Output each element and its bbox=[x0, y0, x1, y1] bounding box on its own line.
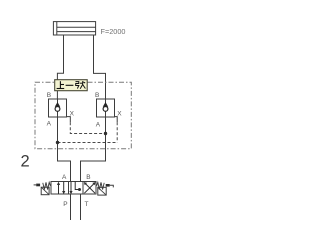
svg-text:X: X bbox=[117, 111, 122, 118]
svg-text:A: A bbox=[96, 122, 101, 129]
pilot dashed cross line bbox=[58, 142, 118, 144]
svg-text:P: P bbox=[63, 201, 67, 208]
wire DCV port P down bbox=[70, 194, 72, 220]
check valve V2 poppet seat bbox=[103, 102, 108, 107]
pilot line X of V1 bbox=[67, 117, 71, 123]
check valve V1 body bbox=[49, 99, 67, 117]
piston bbox=[56, 22, 58, 35]
svg-text:T: T bbox=[85, 201, 89, 208]
wire cylinder left port down bbox=[57, 35, 63, 99]
check valve V1 poppet seat bbox=[55, 102, 60, 107]
solenoid right box bbox=[98, 187, 106, 195]
svg-text:B: B bbox=[86, 174, 90, 181]
check valve V2 body bbox=[97, 99, 115, 117]
spring left bbox=[43, 182, 51, 189]
check valve V2 ball bbox=[103, 107, 108, 112]
piston rod upper line bbox=[57, 26, 96, 28]
svg-text:2: 2 bbox=[21, 153, 30, 171]
nav button glyph 张 bbox=[76, 81, 86, 89]
cylinder body bbox=[53, 22, 95, 35]
svg-text:F=2000: F=2000 bbox=[101, 27, 126, 36]
DCV divider 2 bbox=[82, 182, 84, 195]
dashed enclosure box bbox=[35, 82, 131, 149]
solenoid left box bbox=[41, 187, 49, 195]
svg-text:A: A bbox=[62, 174, 67, 181]
wire V1 down to DCV port A bbox=[58, 117, 71, 182]
nav button glyph 一 bbox=[66, 84, 74, 86]
nav button background bbox=[55, 80, 87, 91]
solenoid left terminal bar bbox=[36, 184, 40, 187]
solenoid right terminal bar bbox=[106, 184, 110, 187]
pilot dashed drop V2 bbox=[116, 122, 118, 142]
wire V2 down to DCV port B bbox=[81, 117, 106, 182]
junction dot left bbox=[56, 141, 59, 144]
solenoid left lead wire bbox=[34, 184, 37, 186]
svg-text:B: B bbox=[47, 92, 51, 99]
DCV left position arrows bbox=[57, 182, 65, 195]
DCV right position crossed arrows bbox=[84, 182, 96, 193]
piston rod lower line bbox=[57, 31, 96, 33]
junction dot right bbox=[104, 132, 107, 135]
DCV divider 1 bbox=[68, 182, 70, 195]
solenoid left diagonal bbox=[41, 187, 49, 195]
wire DCV port T down bbox=[80, 194, 82, 220]
check valve V1 ball bbox=[55, 107, 60, 112]
spring right bbox=[97, 182, 105, 189]
solenoid right diagonal bbox=[98, 187, 106, 195]
pilot line X of V2 bbox=[115, 117, 118, 123]
wire through V1 bbox=[57, 99, 59, 117]
svg-text:B: B bbox=[95, 92, 99, 99]
DCV centre position bbox=[69, 182, 81, 195]
wire through V2 bbox=[105, 99, 107, 117]
nav button glyph 上 bbox=[57, 81, 65, 88]
pilot dashed drop V1 bbox=[70, 122, 105, 133]
DCV body bbox=[51, 182, 96, 195]
solenoid right lead wire bbox=[110, 185, 114, 187]
wire cylinder right port down bbox=[94, 35, 106, 99]
svg-text:A: A bbox=[47, 121, 52, 128]
